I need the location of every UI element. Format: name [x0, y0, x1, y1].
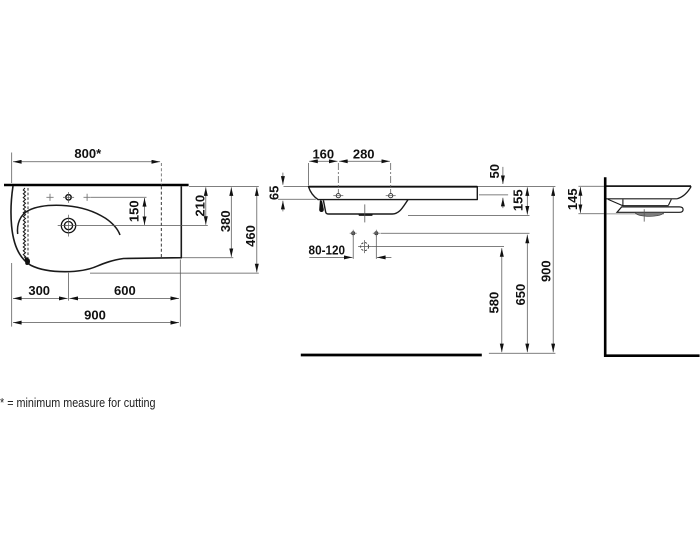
basin bottom edge (side view)	[607, 198, 678, 200]
wall drain symbol (front view)	[361, 243, 369, 251]
bowl underside bevel left (side view)	[608, 199, 672, 206]
drain boss (side view, grey)	[635, 212, 664, 216]
dimension 150	[144, 198, 146, 225]
dimension 155	[526, 187, 528, 214]
faucet reference line (150 top)	[91, 196, 147, 198]
wall line (top view back edge)	[4, 184, 189, 187]
left extension line below basin	[11, 263, 13, 327]
dimension 65 (slab thickness)	[282, 173, 284, 185]
mounting hole left (front view)	[336, 194, 340, 198]
drain reference line (150/210 bottom)	[80, 225, 208, 227]
mounting hole right (front view)	[389, 194, 393, 198]
small black mark at hatch band bottom	[25, 257, 30, 265]
dimension 580	[501, 248, 503, 352]
bowl front extension line	[90, 272, 259, 274]
holes level reference line (50 bottom)	[479, 194, 508, 196]
bowl under slab (front view)	[323, 200, 408, 214]
svg-text:150: 150	[126, 200, 141, 222]
basin outer outline (top view)	[11, 186, 181, 272]
dimension 80-120	[309, 256, 352, 258]
svg-text:600: 600	[114, 283, 136, 298]
svg-text:210: 210	[193, 195, 208, 217]
dimension 900 (top view width)	[13, 322, 179, 324]
svg-text:460: 460	[243, 225, 258, 247]
floor line (side view)	[604, 354, 700, 357]
floor extension line	[489, 352, 556, 354]
svg-text:580: 580	[487, 292, 502, 314]
dimension 160/280 extension lines	[307, 163, 309, 186]
top reference line (right of top view)	[189, 186, 259, 188]
wall supply hole right	[375, 232, 378, 235]
dimension 800*	[11, 153, 13, 184]
svg-text:900: 900	[84, 308, 106, 323]
145 extension lines	[578, 185, 604, 187]
drain centre line (front view)	[364, 204, 366, 222]
svg-text:155: 155	[511, 189, 526, 211]
black overflow mark (front view, left of bowl)	[319, 200, 324, 212]
wall supply hole left	[352, 232, 355, 235]
basin slab outline (front view)	[309, 187, 478, 200]
middle extension line (drain axis)	[68, 273, 70, 301]
long top reference line (right segment)	[477, 186, 555, 188]
svg-text:160: 160	[312, 147, 334, 162]
bowl bottom extension line (155)	[408, 214, 530, 216]
dimension 460	[256, 187, 258, 272]
svg-text:145: 145	[565, 188, 580, 210]
svg-text:65: 65	[266, 186, 281, 200]
svg-text:* = minimum measure for cuttin: * = minimum measure for cutting	[0, 395, 156, 410]
svg-text:650: 650	[513, 284, 528, 306]
svg-text:300: 300	[28, 283, 50, 298]
dimension 900 (height)	[552, 187, 554, 352]
dimension 300	[13, 297, 68, 299]
basin top edge (side view)	[607, 185, 692, 187]
faucet hole (top view)	[66, 195, 71, 200]
wall line (side view)	[604, 177, 607, 357]
svg-text:80-120: 80-120	[309, 242, 346, 257]
dimension 380	[230, 187, 232, 257]
drain fitting under bowl (front view)	[358, 214, 373, 216]
dimension 160	[309, 160, 337, 162]
drain centre line (side view)	[643, 209, 645, 221]
right extension line below basin	[179, 260, 181, 327]
floor line (front view)	[301, 354, 482, 357]
dimension 650	[526, 235, 528, 353]
dimension 210	[205, 187, 207, 225]
dimension 600	[69, 297, 179, 299]
basin inner bowl rim (top view)	[17, 205, 120, 235]
dimension 145	[579, 187, 581, 213]
svg-text:900: 900	[539, 260, 554, 282]
plus mark right of faucet	[84, 194, 91, 201]
towel rail bar (side view)	[617, 207, 683, 212]
long top reference line (left segment)	[284, 186, 309, 188]
drain to 580 reference line	[371, 246, 504, 248]
80-120 extension lines	[352, 236, 354, 259]
dimension 280	[339, 160, 390, 162]
holes to 650 reference line	[381, 232, 530, 234]
svg-text:800*: 800*	[74, 146, 102, 161]
svg-text:380: 380	[218, 210, 233, 232]
dashed cut line at 800 (top view)	[160, 186, 162, 257]
basin front lip curve (side view)	[677, 186, 691, 199]
svg-text:50: 50	[487, 164, 502, 178]
counter bottom extension line	[182, 257, 233, 259]
cutting hatch band (left, dashed)	[23, 188, 25, 257]
drain (top view, double circle)	[61, 218, 75, 232]
dimension 50	[502, 167, 504, 184]
svg-text:280: 280	[353, 147, 375, 162]
hidden line under bar (side view)	[606, 213, 664, 215]
plus mark left of faucet	[46, 194, 53, 201]
